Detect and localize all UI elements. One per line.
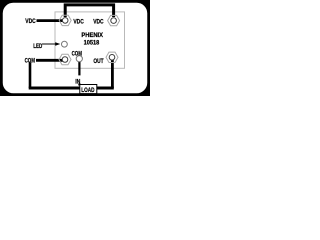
terminal OUT bottom-right xyxy=(106,52,118,62)
svg-text:VDC: VDC xyxy=(73,18,84,25)
wire OUT drop xyxy=(111,58,114,88)
terminal VDC top-left xyxy=(59,15,71,25)
LED indicator circle xyxy=(62,41,68,47)
load box xyxy=(80,85,97,95)
wire LED lead xyxy=(42,43,56,45)
wire load bottom run xyxy=(29,87,114,90)
svg-text:OUT: OUT xyxy=(93,58,103,65)
terminal IN circle xyxy=(76,56,82,62)
svg-text:10518: 10518 xyxy=(84,40,100,47)
svg-text:VDC: VDC xyxy=(25,18,36,25)
border frame xyxy=(0,0,150,96)
wire IN drop lower xyxy=(78,83,80,86)
svg-text:COM: COM xyxy=(72,51,82,58)
wire COM branch down xyxy=(29,62,32,88)
svg-text:COM: COM xyxy=(25,57,35,64)
terminal VDC top-right xyxy=(108,15,120,25)
svg-text:PHENIX: PHENIX xyxy=(81,32,103,39)
label IN xyxy=(75,76,83,85)
wire IN drop upper xyxy=(78,59,80,75)
wire external COM feed xyxy=(36,59,63,62)
wire VDC jumper loop top xyxy=(65,5,113,17)
svg-text:LED: LED xyxy=(33,43,42,50)
LED arrowhead xyxy=(55,42,60,46)
svg-text:LOAD: LOAD xyxy=(81,87,94,94)
module outline PHENIX 10518 xyxy=(55,12,125,68)
terminal COM bottom-left xyxy=(59,54,71,64)
wire external VDC feed xyxy=(37,19,64,22)
svg-text:VDC: VDC xyxy=(93,18,104,25)
